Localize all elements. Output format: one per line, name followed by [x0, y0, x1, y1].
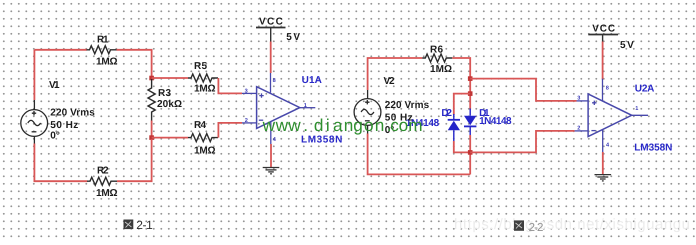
pin stub: minus input — [575, 130, 589, 132]
caption 图2-2 — [514, 220, 543, 234]
svg-text:U2A: U2A — [635, 83, 655, 94]
pin stub: pin 4 VEE — [602, 130, 604, 153]
svg-text:0°: 0° — [50, 130, 60, 141]
wire: pin 4 to ground — [270, 144, 272, 167]
svg-text:1MΩ: 1MΩ — [194, 84, 216, 95]
svg-text:R5: R5 — [194, 61, 207, 72]
pin stub: output — [300, 107, 316, 109]
VCC symbol U1A — [256, 28, 286, 42]
plus mark — [259, 93, 263, 97]
resistor R4 — [188, 134, 218, 142]
minus mark — [259, 119, 263, 121]
svg-text:20kΩ: 20kΩ — [157, 99, 182, 110]
wire: VCC to op-amp pin 8 — [602, 42, 604, 80]
pin stub: pin 8 VCC — [270, 73, 272, 93]
node junction B (to plus input) — [468, 76, 473, 81]
svg-text:2-1: 2-1 — [136, 218, 153, 232]
svg-text:V2: V2 — [384, 76, 395, 87]
resistor R5 — [188, 74, 218, 82]
pin stub: pin 4 VEE — [270, 122, 272, 144]
wire: node to R5 — [152, 77, 188, 79]
op-amp U1A — [257, 87, 300, 129]
wire: node to R4 — [152, 137, 188, 139]
VCC symbol U2A — [588, 35, 618, 42]
op-amp U2A — [588, 94, 632, 137]
wire: R4 to op-amp minus input — [218, 123, 242, 138]
svg-text:https://blog.csdn.net/xishigua: https://blog.csdn.net/xishiguangu — [454, 216, 690, 233]
svg-text:LM358N: LM358N — [634, 142, 672, 153]
node junction C (to minus input) — [468, 150, 473, 155]
svg-text:220 Vrms: 220 Vrms — [385, 100, 430, 111]
svg-text:VCC: VCC — [259, 16, 283, 27]
svg-text:5V: 5V — [620, 40, 634, 51]
diode D1 (1N4148, pointing down) — [464, 109, 476, 137]
caption 图2-1 — [124, 218, 154, 232]
svg-text:1N4148: 1N4148 — [479, 116, 512, 127]
svg-text:R3: R3 — [158, 88, 171, 99]
svg-text:R4: R4 — [194, 120, 206, 131]
svg-text:U1A: U1A — [302, 75, 322, 86]
svg-text:220 Vrms: 220 Vrms — [50, 108, 95, 119]
wire: VCC to op-amp pin 8 — [270, 42, 272, 74]
svg-text:1MΩ: 1MΩ — [194, 146, 216, 157]
svg-text:8: 8 — [273, 78, 276, 84]
ground U1A — [263, 168, 280, 174]
resistor R2 — [87, 177, 117, 185]
svg-text:2: 2 — [245, 118, 248, 124]
svg-text:8: 8 — [606, 85, 609, 91]
wire: V1 bottom to bottom-left corner and to R2 — [34, 144, 87, 182]
svg-text:1: 1 — [635, 106, 638, 112]
svg-text:3: 3 — [577, 96, 580, 102]
wire: node B right, step down to op-amp plus — [470, 79, 576, 101]
wire: D2 branch bottom to node C — [454, 141, 470, 152]
plus mark — [592, 101, 596, 105]
wire: left vertical from top corner to V1 top — [33, 50, 35, 100]
minus mark — [591, 130, 595, 132]
svg-text:1MΩ: 1MΩ — [430, 64, 452, 75]
node junction A (to D2 branch) — [468, 91, 473, 96]
ground U2A — [595, 175, 612, 181]
wire: V2 bottom to bottom wire to right corner — [368, 134, 471, 175]
wire: pin 4 to ground — [602, 152, 604, 174]
svg-text:2-2: 2-2 — [529, 222, 544, 234]
svg-text:VCC: VCC — [592, 24, 615, 35]
svg-text:3: 3 — [245, 89, 248, 95]
svg-text:R6: R6 — [430, 45, 443, 56]
wire: R6 to top-right corner, down main vertical to D1 — [452, 58, 470, 110]
svg-text:D2: D2 — [441, 108, 452, 119]
diode D2 (1N4148, pointing up) — [448, 114, 460, 142]
node junction top (R1/R3/R5) — [149, 76, 154, 81]
pin stub: minus input — [242, 122, 257, 124]
wire: D1 bottom through node C down to bottom wire — [469, 135, 471, 174]
svg-text:5V: 5V — [286, 32, 300, 43]
svg-text:50 Hz: 50 Hz — [50, 120, 78, 131]
resistor R6 — [422, 54, 452, 62]
wire: node C right, step up to op-amp minus — [470, 131, 574, 153]
wire: node A left to D2 branch, down — [454, 94, 470, 115]
resistor R1 — [87, 46, 117, 54]
node junction bottom (R3/R2/R4) — [149, 135, 154, 140]
wire: R2 to bottom-right corner up to node — [117, 139, 152, 181]
pin stub: plus input — [242, 92, 257, 94]
pin stub: plus input — [577, 100, 589, 102]
svg-text:LM358N: LM358N — [301, 134, 342, 145]
svg-text:1: 1 — [304, 103, 307, 109]
svg-text:www.diangon.com: www.diangon.com — [262, 115, 423, 135]
resistor R3 (vertical) — [148, 79, 155, 121]
wire: R5 to op-amp plus input — [218, 78, 242, 93]
svg-text:1MΩ: 1MΩ — [96, 188, 118, 199]
svg-text:2: 2 — [577, 125, 580, 131]
wire: top horizontal left segment to R1 — [34, 49, 86, 51]
wire: V2 top to top-left corner and R6 — [368, 58, 423, 90]
svg-text:1MΩ: 1MΩ — [96, 57, 118, 68]
wire: top horizontal right segment from R1 to corner, down to node — [117, 50, 152, 78]
source V1 (AC) — [21, 100, 48, 144]
svg-text:R1: R1 — [97, 35, 109, 46]
svg-text:R2: R2 — [97, 166, 109, 177]
pin stub: pin 8 VCC — [602, 79, 604, 101]
source V2 (AC) — [354, 90, 381, 134]
pin stub: output — [632, 114, 648, 116]
wire: R3 bottom to lower node — [151, 121, 153, 138]
svg-text:V1: V1 — [49, 80, 60, 91]
